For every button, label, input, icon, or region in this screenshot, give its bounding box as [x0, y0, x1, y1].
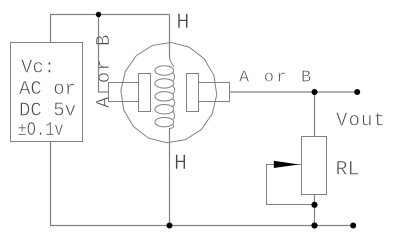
right terminal bar — [199, 83, 230, 102]
wire bottom return rail horizontal — [50, 225, 353, 227]
load resistor RL box — [302, 137, 327, 195]
terminal dot Vout- — [350, 223, 356, 229]
svg-text:±O.1v: ±O.1v — [18, 119, 64, 141]
svg-text:AC or: AC or — [19, 78, 76, 100]
svg-text:Vc:: Vc: — [21, 57, 55, 79]
voltage source box Vc — [11, 43, 83, 142]
wiper arrowhead — [274, 161, 299, 168]
wiper arm wire — [267, 165, 315, 205]
junction dot supply/left-terminal node — [96, 12, 101, 17]
wire from Vc box top up to supply rail — [50, 15, 52, 43]
svg-text:Vout: Vout — [336, 110, 386, 132]
coil (spring) inside sensor — [155, 58, 175, 129]
junction dot RL bottom on rail — [311, 222, 317, 228]
left plate — [139, 74, 151, 112]
svg-text:RL: RL — [336, 159, 360, 182]
terminal dot Vout+ — [354, 89, 360, 95]
wire right output horizontal A-or-B to Vout — [230, 91, 358, 93]
wire output node down to RL top — [314, 92, 316, 137]
wire top supply rail horizontal — [50, 14, 170, 16]
left terminal bar — [109, 83, 139, 102]
svg-text:H: H — [174, 151, 187, 176]
right plate — [187, 74, 199, 112]
wire H bottom vertical to bottom rail — [169, 128, 171, 226]
svg-text:A or B: A or B — [93, 34, 115, 108]
junction dot H return on rail — [167, 223, 173, 229]
svg-text:A or B: A or B — [239, 69, 313, 88]
wire Vc box bottom down to bottom rail — [50, 142, 52, 226]
wire left branch down to A-or-B terminal — [99, 15, 109, 93]
junction dot output node — [312, 89, 318, 95]
sensor body circle — [121, 42, 217, 142]
junction dot wiper tap — [311, 202, 317, 208]
svg-text:H: H — [176, 10, 189, 35]
wire H top vertical into coil — [169, 15, 171, 58]
wire RL bottom to bottom rail — [314, 195, 316, 226]
